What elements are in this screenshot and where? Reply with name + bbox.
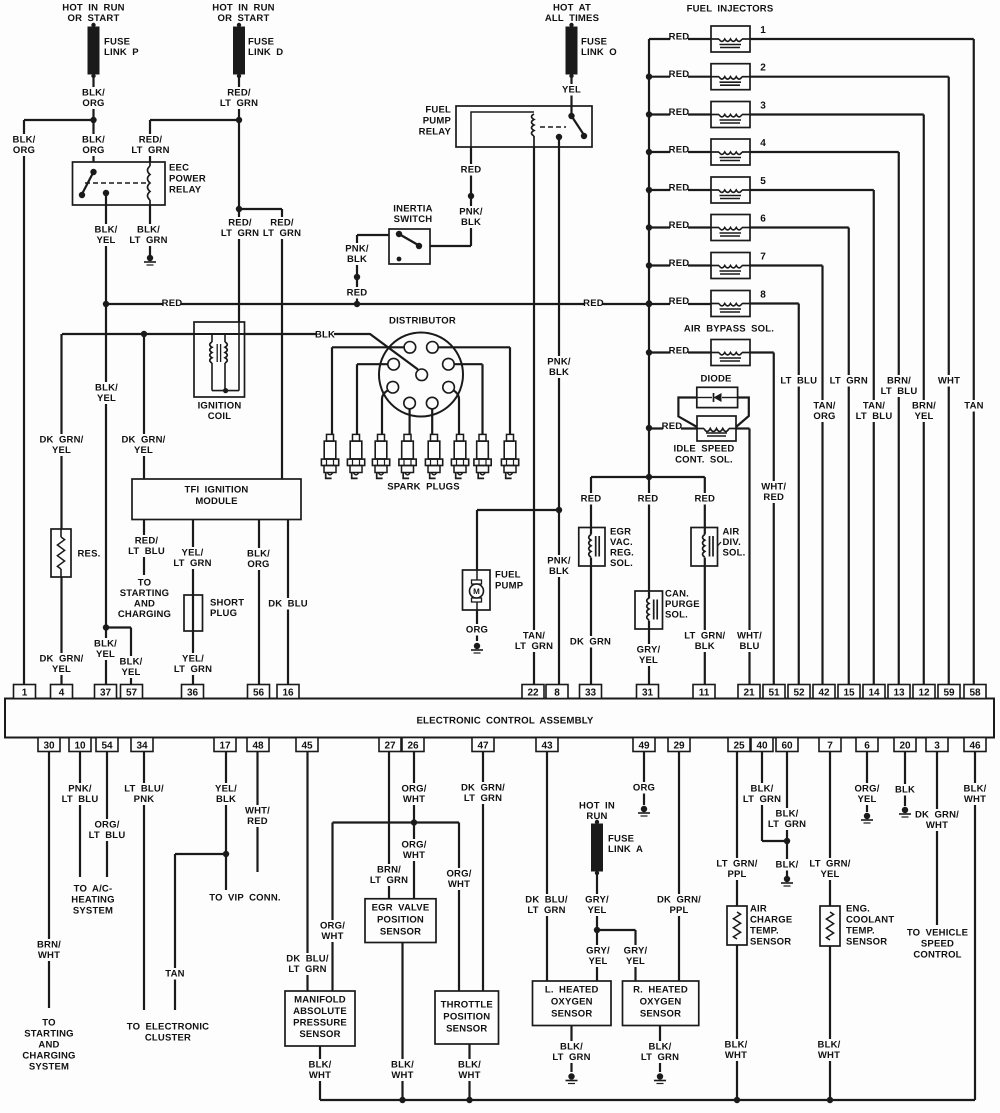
svg-text:LINK A: LINK A [608, 844, 643, 855]
svg-text:ORG: ORG [813, 411, 835, 422]
svg-text:ORG: ORG [13, 145, 35, 156]
svg-text:INERTIA: INERTIA [393, 204, 432, 215]
svg-text:RED/: RED/ [135, 536, 159, 547]
svg-text:31: 31 [642, 688, 654, 699]
svg-text:SENSOR: SENSOR [846, 937, 887, 948]
svg-text:DK GRN/: DK GRN/ [461, 783, 505, 794]
svg-text:TEMP.: TEMP. [846, 926, 875, 937]
svg-text:HOT IN RUN: HOT IN RUN [212, 3, 274, 14]
svg-text:CHARGING: CHARGING [22, 1051, 75, 1062]
svg-text:SYSTEM: SYSTEM [29, 1062, 69, 1073]
svg-text:3: 3 [760, 101, 766, 112]
svg-text:40: 40 [756, 741, 768, 752]
svg-text:BLK/: BLK/ [94, 639, 117, 650]
svg-text:PUMP: PUMP [423, 116, 452, 127]
svg-text:RES.: RES. [78, 549, 101, 560]
svg-text:ORG/: ORG/ [854, 784, 879, 795]
svg-text:8: 8 [554, 688, 560, 699]
svg-text:BLK/: BLK/ [776, 860, 799, 871]
svg-text:FUEL INJECTORS: FUEL INJECTORS [687, 4, 774, 15]
svg-text:RED: RED [638, 494, 659, 505]
svg-text:42: 42 [818, 688, 830, 699]
svg-text:12: 12 [918, 688, 930, 699]
svg-text:PNK/: PNK/ [68, 784, 92, 795]
svg-text:TO: TO [138, 578, 151, 589]
svg-text:SOL.: SOL. [723, 548, 746, 559]
svg-text:ORG: ORG [82, 145, 104, 156]
svg-text:LT BLU: LT BLU [881, 386, 918, 397]
svg-text:RED: RED [583, 298, 604, 309]
svg-text:BRN/: BRN/ [37, 940, 61, 951]
svg-text:LT BLU: LT BLU [89, 830, 126, 841]
svg-text:WHT: WHT [725, 1050, 747, 1061]
svg-text:SENSOR: SENSOR [299, 1029, 340, 1040]
svg-text:YEL: YEL [96, 649, 115, 660]
svg-text:DISTRIBUTOR: DISTRIBUTOR [389, 316, 456, 327]
svg-text:ORG/: ORG/ [401, 784, 426, 795]
svg-text:AIR BYPASS SOL.: AIR BYPASS SOL. [684, 324, 774, 335]
svg-text:PNK/: PNK/ [345, 244, 369, 255]
svg-text:RED: RED [669, 107, 690, 118]
svg-text:FUSE: FUSE [608, 834, 634, 845]
svg-text:WHT: WHT [403, 794, 425, 805]
svg-text:LT GRN: LT GRN [743, 794, 781, 805]
svg-text:SOL.: SOL. [665, 610, 688, 621]
svg-text:STARTING: STARTING [120, 588, 169, 599]
svg-text:TO VIP CONN.: TO VIP CONN. [209, 893, 280, 904]
svg-text:IGNITION: IGNITION [198, 401, 242, 412]
svg-text:R. HEATED: R. HEATED [633, 985, 688, 996]
svg-text:47: 47 [477, 741, 489, 752]
svg-text:YEL: YEL [588, 956, 607, 967]
svg-text:MANIFOLD: MANIFOLD [294, 995, 346, 1006]
svg-text:OR START: OR START [218, 13, 270, 24]
svg-text:BLK/: BLK/ [247, 549, 270, 560]
svg-text:YEL: YEL [134, 445, 153, 456]
svg-text:GRY/: GRY/ [637, 645, 661, 656]
svg-text:HOT AT: HOT AT [553, 3, 591, 14]
svg-text:VAC.: VAC. [610, 537, 633, 548]
svg-text:8: 8 [760, 290, 766, 301]
svg-text:34: 34 [136, 741, 148, 752]
svg-text:ALL TIMES: ALL TIMES [545, 13, 599, 24]
svg-text:11: 11 [699, 688, 710, 699]
svg-text:ORG: ORG [247, 559, 269, 570]
svg-text:BLK/: BLK/ [13, 135, 36, 146]
svg-text:ORG: ORG [466, 625, 488, 636]
svg-text:1: 1 [760, 25, 766, 36]
svg-text:RED: RED [581, 494, 602, 505]
svg-text:RED: RED [669, 258, 690, 269]
svg-text:YEL/: YEL/ [182, 548, 204, 559]
svg-text:FUSE: FUSE [581, 37, 607, 48]
svg-text:RED: RED [669, 183, 690, 194]
svg-text:M: M [473, 587, 480, 596]
svg-text:54: 54 [101, 741, 113, 752]
svg-text:OXYGEN: OXYGEN [551, 997, 593, 1008]
svg-text:BLK/: BLK/ [964, 784, 987, 795]
svg-text:WHT: WHT [321, 931, 343, 942]
svg-text:37: 37 [100, 688, 112, 699]
svg-text:2: 2 [760, 63, 766, 74]
svg-text:BLK/: BLK/ [560, 1042, 583, 1053]
svg-text:20: 20 [899, 741, 911, 752]
svg-text:33: 33 [585, 688, 597, 699]
svg-text:4: 4 [59, 688, 65, 699]
svg-text:GRY/: GRY/ [586, 946, 610, 957]
svg-text:ENG.: ENG. [846, 904, 870, 915]
svg-text:SOL.: SOL. [610, 558, 633, 569]
svg-text:WHT: WHT [938, 376, 960, 387]
svg-text:RED: RED [662, 421, 683, 432]
svg-text:3: 3 [934, 741, 940, 752]
svg-text:BLK: BLK [549, 367, 569, 378]
svg-text:57: 57 [126, 688, 138, 699]
svg-text:52: 52 [793, 688, 805, 699]
svg-text:CAN.: CAN. [665, 589, 689, 600]
svg-text:CONT. SOL.: CONT. SOL. [675, 455, 733, 466]
svg-text:BLK/: BLK/ [776, 809, 799, 820]
svg-text:LT GRN: LT GRN [552, 1052, 590, 1063]
svg-text:BLK/: BLK/ [95, 225, 118, 236]
svg-text:LT GRN: LT GRN [131, 145, 169, 156]
svg-text:DIODE: DIODE [700, 374, 731, 385]
svg-text:BLK: BLK [549, 566, 569, 577]
svg-text:22: 22 [527, 688, 539, 699]
svg-text:LT GRN: LT GRN [370, 875, 408, 886]
svg-text:4: 4 [760, 138, 766, 149]
svg-text:58: 58 [969, 688, 981, 699]
svg-text:BRN/: BRN/ [912, 401, 936, 412]
svg-text:5: 5 [760, 176, 766, 187]
svg-text:BLK/: BLK/ [82, 135, 105, 146]
svg-text:YEL: YEL [626, 956, 645, 967]
svg-text:LT BLU: LT BLU [62, 794, 99, 805]
svg-text:PURGE: PURGE [665, 599, 700, 610]
svg-text:SENSOR: SENSOR [446, 1024, 487, 1035]
svg-text:YEL: YEL [52, 445, 71, 456]
svg-text:BLK: BLK [461, 217, 481, 228]
svg-text:TAN/: TAN/ [863, 401, 885, 412]
svg-text:30: 30 [43, 741, 55, 752]
svg-text:10: 10 [74, 741, 86, 752]
svg-text:6: 6 [760, 214, 766, 225]
svg-text:BLK/: BLK/ [82, 88, 105, 99]
svg-text:LT GRN: LT GRN [129, 235, 167, 246]
svg-text:POSITION: POSITION [443, 1012, 490, 1023]
svg-text:36: 36 [187, 688, 199, 699]
svg-text:26: 26 [407, 741, 419, 752]
svg-text:FUSE: FUSE [104, 37, 130, 48]
svg-text:BLK: BLK [216, 794, 236, 805]
svg-text:RED: RED [461, 165, 482, 176]
svg-text:YEL/: YEL/ [215, 784, 237, 795]
svg-text:RED/: RED/ [228, 218, 252, 229]
svg-text:SPARK PLUGS: SPARK PLUGS [387, 482, 460, 493]
svg-text:DK GRN/: DK GRN/ [121, 435, 165, 446]
svg-text:BLK/: BLK/ [120, 657, 143, 668]
svg-text:51: 51 [768, 688, 780, 699]
svg-text:BLK: BLK [695, 641, 715, 652]
svg-text:60: 60 [781, 741, 793, 752]
svg-text:DK GRN/: DK GRN/ [39, 435, 83, 446]
svg-text:THROTTLE: THROTTLE [441, 1000, 493, 1011]
svg-text:PRESSURE: PRESSURE [293, 1018, 347, 1029]
svg-text:LT GRN/: LT GRN/ [809, 859, 850, 870]
svg-text:TEMP.: TEMP. [750, 926, 779, 937]
svg-text:BLK/: BLK/ [458, 1060, 481, 1071]
svg-text:SYSTEM: SYSTEM [73, 906, 113, 917]
svg-text:SHORT: SHORT [210, 598, 244, 609]
svg-text:LT BLU: LT BLU [780, 376, 817, 387]
svg-text:SPEED: SPEED [921, 939, 954, 950]
svg-text:RED: RED [694, 494, 715, 505]
svg-text:13: 13 [893, 688, 905, 699]
svg-text:DK GRN/: DK GRN/ [657, 895, 701, 906]
svg-text:ELECTRONIC CONTROL ASSEMBLY: ELECTRONIC CONTROL ASSEMBLY [416, 716, 593, 727]
svg-text:L. HEATED: L. HEATED [545, 985, 599, 996]
svg-text:YEL/: YEL/ [182, 654, 204, 665]
svg-text:LT GRN: LT GRN [515, 641, 553, 652]
svg-text:LT GRN: LT GRN [220, 98, 258, 109]
svg-text:RED: RED [247, 816, 268, 827]
svg-text:EGR: EGR [610, 527, 631, 538]
svg-text:RUN: RUN [586, 811, 607, 822]
svg-text:SENSOR: SENSOR [640, 1009, 681, 1020]
svg-text:BLK: BLK [315, 330, 335, 341]
svg-text:TAN/: TAN/ [523, 631, 545, 642]
svg-text:MODULE: MODULE [195, 496, 237, 507]
svg-text:PNK: PNK [134, 794, 155, 805]
svg-text:FUEL: FUEL [425, 105, 451, 116]
svg-text:6: 6 [864, 741, 870, 752]
svg-text:RED: RED [669, 346, 690, 357]
svg-text:BLK/: BLK/ [725, 1040, 748, 1051]
svg-text:WHT: WHT [458, 1070, 480, 1081]
svg-text:COIL: COIL [208, 411, 232, 422]
svg-text:DK BLU/: DK BLU/ [525, 895, 568, 906]
svg-text:WHT: WHT [818, 1050, 840, 1061]
svg-text:DK BLU/: DK BLU/ [286, 954, 329, 965]
svg-text:BLK/: BLK/ [309, 1060, 332, 1071]
svg-text:RED: RED [162, 298, 183, 309]
svg-text:WHT/: WHT/ [737, 631, 762, 642]
svg-text:EGR VALVE: EGR VALVE [372, 903, 430, 914]
svg-text:LT GRN: LT GRN [174, 664, 212, 675]
svg-text:RED/: RED/ [270, 218, 294, 229]
svg-text:WHT: WHT [964, 794, 986, 805]
svg-text:RED: RED [669, 296, 690, 307]
svg-text:PNK/: PNK/ [547, 556, 571, 567]
svg-text:LT GRN: LT GRN [768, 819, 806, 830]
svg-text:27: 27 [384, 741, 396, 752]
svg-text:RED/: RED/ [139, 135, 163, 146]
svg-text:56: 56 [253, 688, 265, 699]
svg-text:WHT: WHT [391, 1070, 413, 1081]
svg-text:LT GRN: LT GRN [173, 558, 211, 569]
svg-text:LT GRN: LT GRN [221, 228, 259, 239]
svg-text:RELAY: RELAY [419, 127, 452, 138]
svg-text:BLK/: BLK/ [137, 225, 160, 236]
svg-text:YEL: YEL [587, 905, 606, 916]
svg-text:WHT: WHT [38, 950, 60, 961]
svg-text:RED: RED [763, 492, 784, 503]
svg-text:STARTING: STARTING [24, 1029, 73, 1040]
svg-text:DK GRN/: DK GRN/ [39, 654, 83, 665]
svg-text:LINK D: LINK D [248, 47, 283, 58]
svg-text:RED: RED [669, 145, 690, 156]
svg-text:SENSOR: SENSOR [380, 927, 421, 938]
svg-text:BLK/: BLK/ [95, 383, 118, 394]
svg-text:YEL: YEL [52, 664, 71, 675]
svg-text:BLK/: BLK/ [751, 784, 774, 795]
svg-text:LT GRN: LT GRN [527, 905, 565, 916]
svg-text:WHT: WHT [309, 1070, 331, 1081]
svg-text:WHT: WHT [403, 850, 425, 861]
svg-text:LT GRN: LT GRN [288, 964, 326, 975]
svg-text:AIR: AIR [723, 527, 740, 538]
svg-text:FUEL: FUEL [495, 570, 521, 581]
svg-text:LT GRN: LT GRN [263, 228, 301, 239]
svg-text:ORG/: ORG/ [320, 921, 345, 932]
svg-text:BLK/: BLK/ [391, 1060, 414, 1071]
svg-text:15: 15 [843, 688, 855, 699]
svg-text:PPL: PPL [669, 905, 688, 916]
svg-text:BLK/: BLK/ [818, 1040, 841, 1051]
svg-text:HOT IN: HOT IN [579, 801, 615, 812]
svg-text:LINK P: LINK P [104, 47, 139, 58]
svg-text:TO ELECTRONIC: TO ELECTRONIC [127, 1022, 210, 1033]
svg-text:YEL: YEL [562, 85, 581, 96]
svg-text:TAN/: TAN/ [813, 401, 835, 412]
svg-text:TAN: TAN [964, 401, 983, 412]
svg-text:45: 45 [301, 741, 313, 752]
svg-text:21: 21 [743, 688, 755, 699]
svg-text:WHT/: WHT/ [761, 482, 786, 493]
svg-text:ORG: ORG [633, 783, 655, 794]
svg-text:TO: TO [42, 1018, 55, 1029]
svg-text:OR START: OR START [68, 13, 120, 24]
svg-text:DK GRN: DK GRN [570, 637, 611, 648]
svg-text:SWITCH: SWITCH [394, 214, 433, 225]
svg-text:REG.: REG. [610, 548, 634, 559]
svg-text:LINK O: LINK O [581, 47, 617, 58]
svg-text:BRN/: BRN/ [887, 376, 911, 387]
svg-text:RED: RED [669, 220, 690, 231]
svg-text:LT BLU: LT BLU [856, 411, 893, 422]
svg-text:48: 48 [252, 741, 264, 752]
svg-text:BLK: BLK [895, 785, 915, 796]
svg-text:SENSOR: SENSOR [551, 1009, 592, 1020]
svg-text:CHARGING: CHARGING [118, 609, 171, 620]
svg-text:ORG: ORG [82, 98, 104, 109]
svg-text:7: 7 [760, 252, 766, 263]
svg-text:TO VEHICLE: TO VEHICLE [907, 928, 968, 939]
svg-text:FUSE: FUSE [248, 37, 274, 48]
svg-text:GRY/: GRY/ [585, 895, 609, 906]
svg-text:RED: RED [669, 32, 690, 43]
svg-text:ORG/: ORG/ [446, 869, 471, 880]
svg-text:YEL: YEL [121, 667, 140, 678]
svg-text:SENSOR: SENSOR [750, 937, 791, 948]
svg-text:WHT/: WHT/ [245, 806, 270, 817]
svg-text:CLUSTER: CLUSTER [145, 1033, 191, 1044]
svg-text:EEC: EEC [169, 163, 189, 174]
svg-text:59: 59 [943, 688, 955, 699]
svg-text:HOT IN RUN: HOT IN RUN [62, 3, 124, 14]
svg-text:YEL: YEL [857, 794, 876, 805]
svg-text:49: 49 [638, 741, 650, 752]
svg-text:46: 46 [969, 741, 981, 752]
svg-text:PPL: PPL [727, 869, 746, 880]
svg-text:DK BLU: DK BLU [268, 599, 308, 610]
svg-text:LT BLU/: LT BLU/ [124, 784, 164, 795]
svg-text:BLK/: BLK/ [649, 1042, 672, 1053]
svg-text:IDLE SPEED: IDLE SPEED [674, 444, 735, 455]
svg-text:LT GRN: LT GRN [464, 793, 502, 804]
svg-text:7: 7 [827, 741, 833, 752]
svg-text:17: 17 [219, 741, 231, 752]
svg-text:14: 14 [868, 688, 880, 699]
svg-text:TO A/C-: TO A/C- [74, 884, 113, 895]
svg-text:YEL: YEL [820, 869, 839, 880]
svg-text:LT GRN: LT GRN [830, 376, 868, 387]
svg-text:YEL: YEL [96, 235, 115, 246]
svg-text:PNK/: PNK/ [547, 357, 571, 368]
svg-text:16: 16 [282, 688, 294, 699]
svg-text:AND: AND [134, 599, 155, 610]
svg-text:LT BLU: LT BLU [128, 546, 165, 557]
svg-text:TFI IGNITION: TFI IGNITION [184, 485, 248, 496]
svg-text:CHARGE: CHARGE [750, 915, 792, 926]
svg-text:HEATING: HEATING [71, 895, 114, 906]
svg-text:AND: AND [38, 1040, 59, 1051]
svg-text:DK GRN/: DK GRN/ [915, 810, 959, 821]
svg-text:YEL: YEL [97, 393, 116, 404]
svg-text:BLU: BLU [739, 641, 759, 652]
svg-text:LT GRN/: LT GRN/ [716, 859, 757, 870]
svg-text:WHT: WHT [448, 879, 470, 890]
svg-text:29: 29 [673, 741, 685, 752]
svg-text:1: 1 [22, 688, 28, 699]
svg-text:PNK/: PNK/ [459, 207, 483, 218]
svg-text:PLUG: PLUG [210, 608, 237, 619]
svg-text:POSITION: POSITION [377, 915, 424, 926]
svg-text:WHT: WHT [926, 820, 948, 831]
svg-text:BRN/: BRN/ [377, 865, 401, 876]
svg-text:COOLANT: COOLANT [846, 915, 894, 926]
svg-text:YEL: YEL [639, 655, 658, 666]
svg-text:OXYGEN: OXYGEN [640, 997, 682, 1008]
svg-text:PUMP: PUMP [495, 581, 524, 592]
svg-text:GRY/: GRY/ [624, 946, 648, 957]
svg-text:RED/: RED/ [227, 88, 251, 99]
svg-text:ABSOLUTE: ABSOLUTE [293, 1006, 347, 1017]
svg-text:CONTROL: CONTROL [913, 950, 961, 961]
svg-text:RELAY: RELAY [169, 185, 202, 196]
svg-text:BLK: BLK [347, 254, 367, 265]
svg-text:25: 25 [733, 741, 745, 752]
svg-text:ORG/: ORG/ [401, 840, 426, 851]
svg-text:43: 43 [541, 741, 553, 752]
svg-text:YEL: YEL [914, 411, 933, 422]
svg-text:LT GRN: LT GRN [641, 1052, 679, 1063]
svg-text:RED: RED [669, 69, 690, 80]
svg-text:DIV.: DIV. [723, 537, 741, 548]
svg-text:TAN: TAN [165, 969, 184, 980]
svg-text:RED: RED [347, 288, 368, 299]
svg-text:LT GRN/: LT GRN/ [684, 631, 725, 642]
